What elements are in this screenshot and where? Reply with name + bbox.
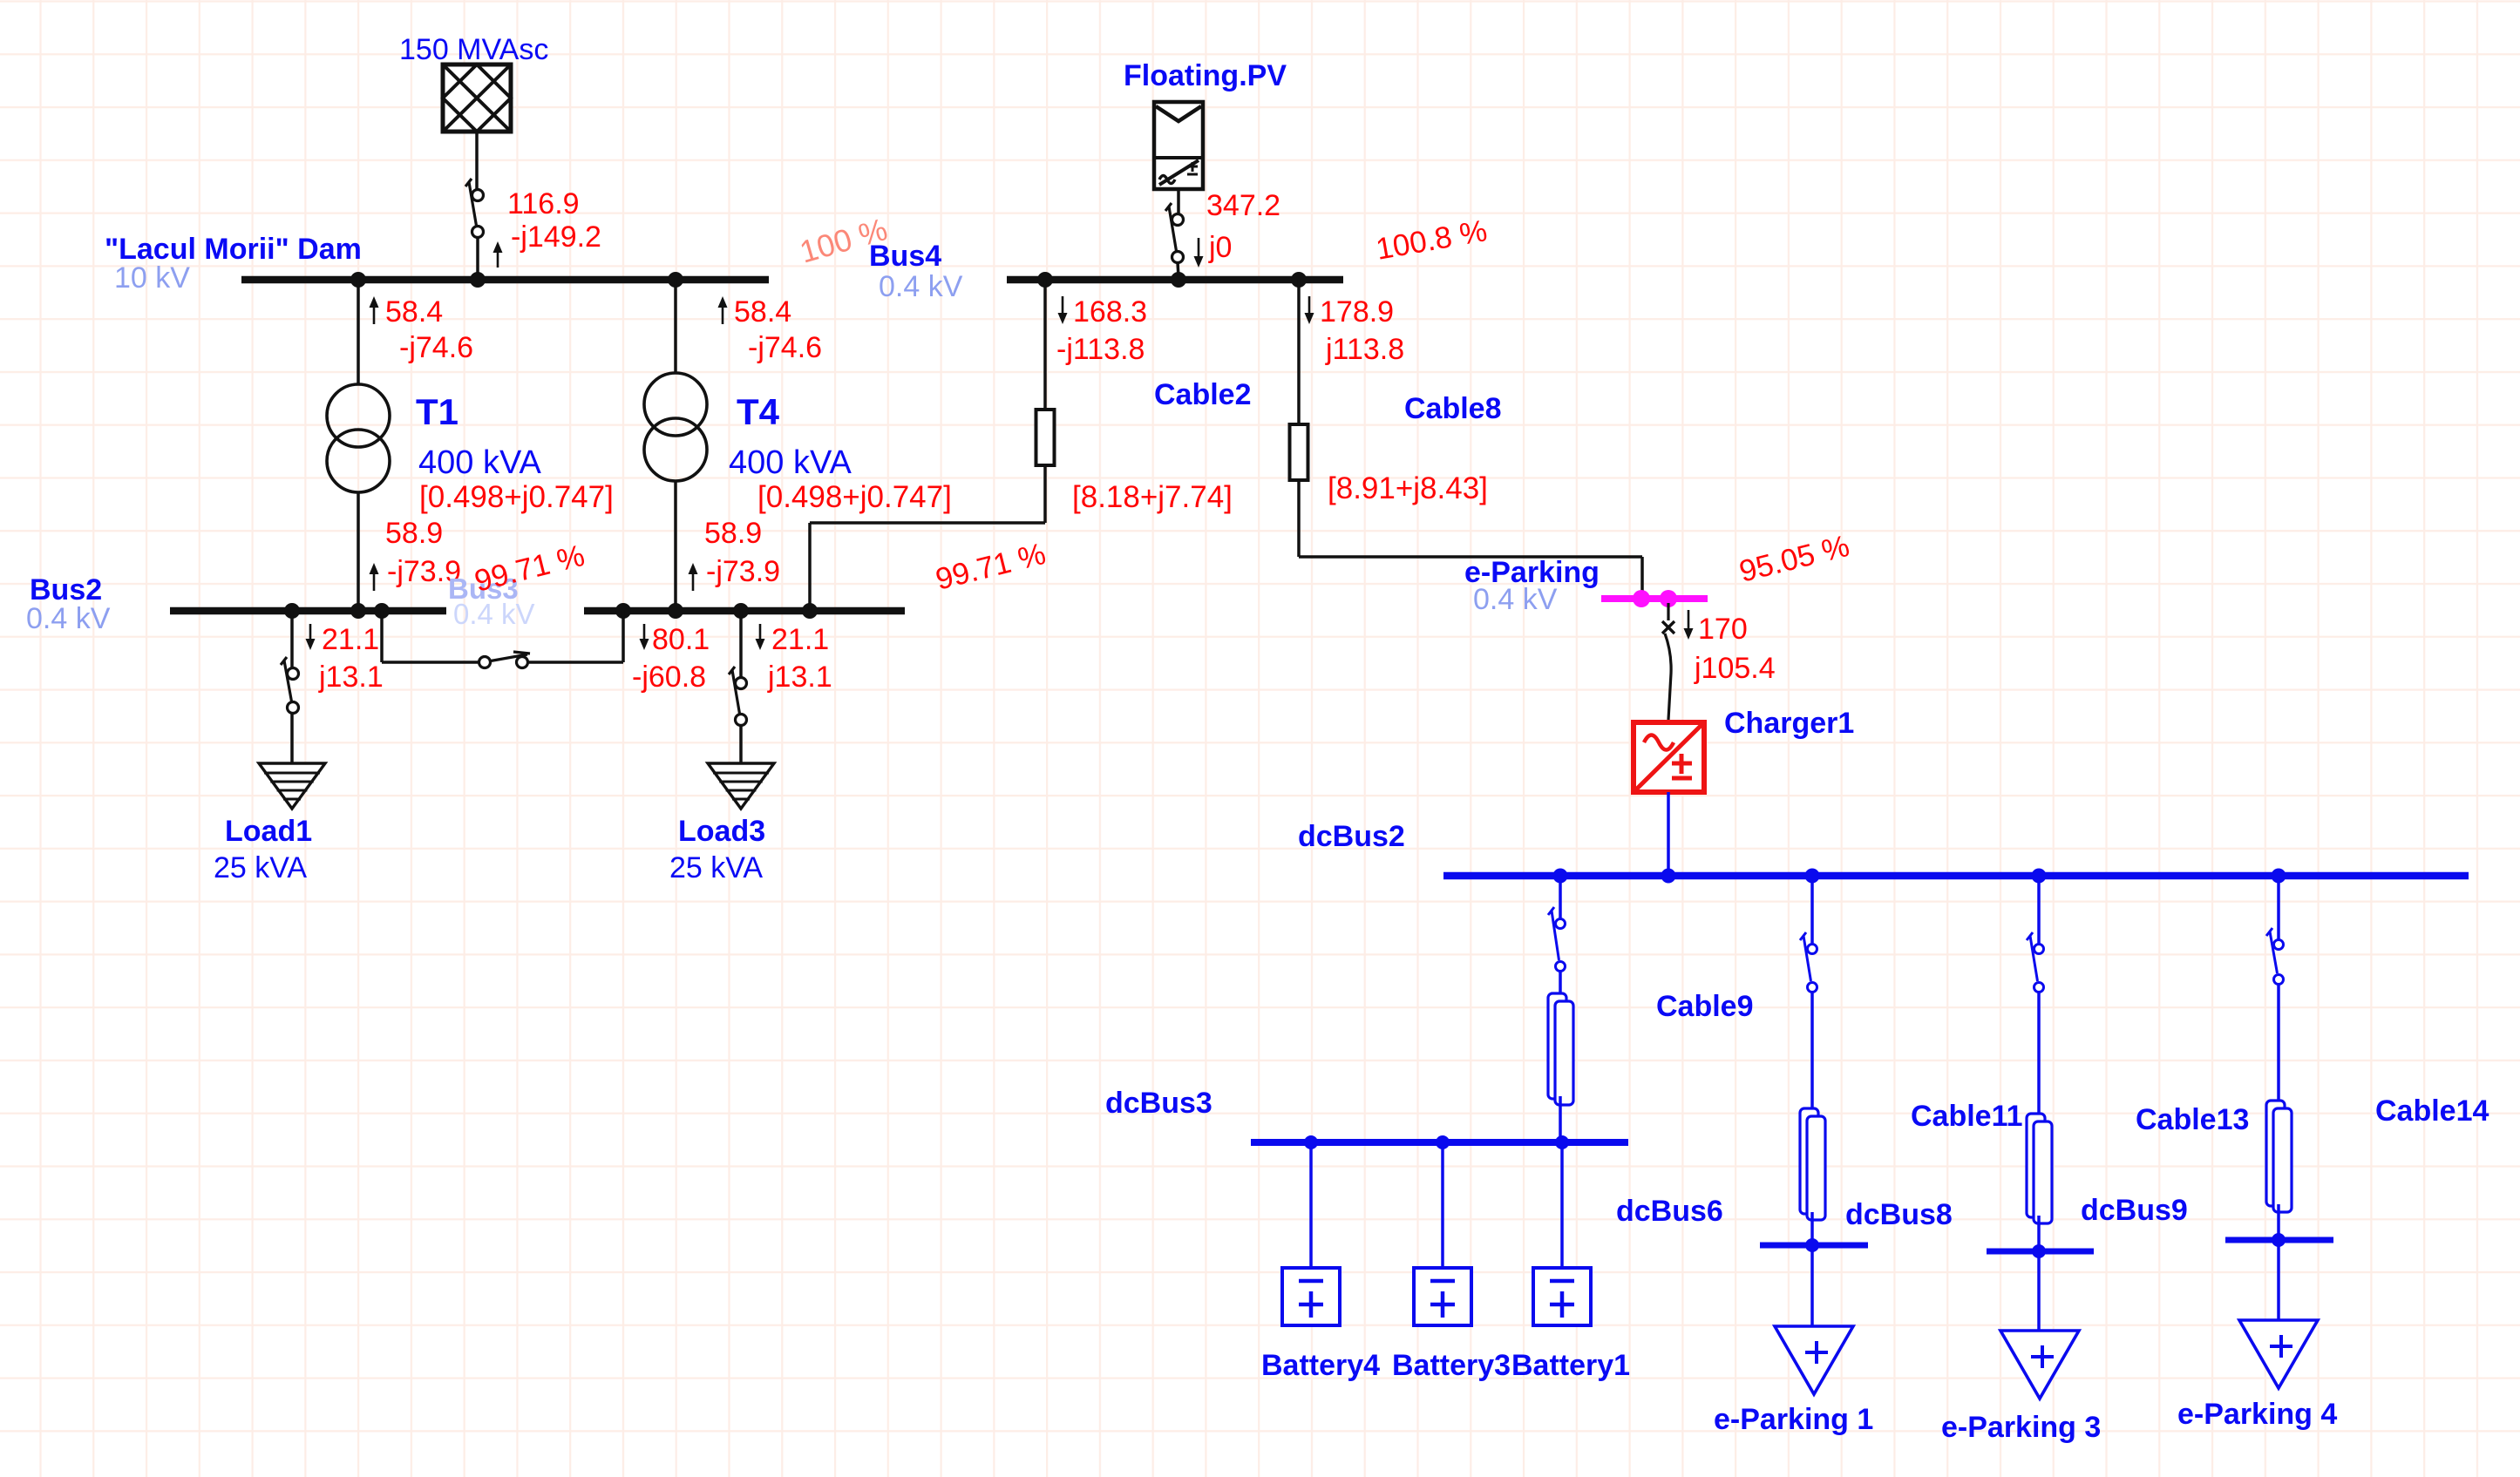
wire Bus3 to Load3 switch <box>739 611 743 678</box>
switch e-Parking to Charger1 (open, x-mark) <box>1662 603 1674 720</box>
cable Cable13 symbol <box>2027 1114 2052 1223</box>
node dcBus8 <box>1805 1238 1819 1252</box>
bus dcBus3 <box>1251 1139 1628 1146</box>
svg-text:Load1: Load1 <box>225 815 312 848</box>
svg-text:Cable8: Cable8 <box>1404 392 1502 425</box>
svg-text:Cable9: Cable9 <box>1656 990 1754 1023</box>
wire dcBus3 to Battery1 <box>1560 1142 1564 1268</box>
wire Bus2 tie down <box>382 611 479 662</box>
svg-text:[0.498+j0.747]: [0.498+j0.747] <box>419 480 614 514</box>
battery Battery4 <box>1282 1268 1340 1325</box>
node bus1-T4 <box>668 272 683 288</box>
svg-text:j0: j0 <box>1208 231 1232 264</box>
node dcBus e-Parking 4 <box>2272 1233 2286 1247</box>
svg-text:178.9: 178.9 <box>1320 295 1394 329</box>
svg-text:Bus4: Bus4 <box>869 240 941 273</box>
svg-text:170: 170 <box>1698 613 1748 646</box>
svg-text:T1: T1 <box>416 391 458 432</box>
load e-Parking 1 symbol <box>1775 1326 1853 1394</box>
flow label 58.4 with up arrow (T1 top) <box>370 295 444 329</box>
wire Cable14 to dc bus <box>2277 1204 2280 1240</box>
bus Bus4 0.4 kV <box>1007 276 1343 284</box>
node Bus4-Cable2 <box>1037 272 1053 288</box>
svg-text:21.1: 21.1 <box>322 623 379 656</box>
wire Cable13 to dcBus9 <box>2037 1216 2041 1251</box>
svg-text:400 kVA: 400 kVA <box>729 444 852 481</box>
switch Cable13 <box>2027 932 2044 993</box>
svg-text:Charger1: Charger1 <box>1724 707 1854 740</box>
switch Floating.PV <box>1165 203 1184 263</box>
flow label -j149.2 with up arrow <box>493 220 601 268</box>
svg-text:58.9: 58.9 <box>704 517 762 550</box>
svg-text:dcBus9: dcBus9 <box>2081 1194 2188 1227</box>
svg-text:58.4: 58.4 <box>734 295 791 329</box>
svg-text:dcBus6: dcBus6 <box>1616 1195 1723 1228</box>
wire switch to Load3 <box>739 725 743 763</box>
switch breaker external grid <box>465 179 484 238</box>
svg-text:150 MVAsc: 150 MVAsc <box>399 33 548 66</box>
switch Load1 <box>281 657 299 714</box>
bus Lacul Morii Dam 10 kV <box>241 276 769 284</box>
node bus1-T1 <box>350 272 366 288</box>
bus dcBus9 <box>1987 1249 2094 1255</box>
node Bus3-tie <box>615 603 631 619</box>
wire switch to bus Lacul Morii <box>476 237 479 277</box>
svg-text:-j60.8: -j60.8 <box>632 661 706 694</box>
transformer T4 <box>644 373 707 481</box>
flow label -j73.9 with up arrow (T1 bottom) <box>370 555 462 591</box>
svg-text:-j149.2: -j149.2 <box>511 220 601 254</box>
svg-text:-j73.9: -j73.9 <box>706 555 780 588</box>
svg-text:25 kVA: 25 kVA <box>214 851 307 884</box>
wire tie to Bus3 <box>527 611 623 662</box>
wire T4 to Bus3 <box>674 481 677 611</box>
svg-text:0.4 kV: 0.4 kV <box>26 602 111 635</box>
svg-text:dcBus3: dcBus3 <box>1105 1087 1212 1120</box>
wire dcBus9 to e-Parking 3 <box>2037 1251 2041 1331</box>
PV generator Floating.PV <box>1154 102 1203 189</box>
node dcBus3-Battery3 <box>1436 1135 1450 1149</box>
bus Bus2 0.4 kV <box>170 607 446 615</box>
flow label 21.1 with down arrow (Load3) <box>756 623 830 656</box>
wire switch to Load1 <box>290 713 294 763</box>
wire bus1 to T4 <box>674 280 677 373</box>
node Bus2-Load1 <box>284 603 300 619</box>
switch Cable11 <box>1800 932 1817 993</box>
svg-text:-j74.6: -j74.6 <box>399 331 473 364</box>
wire dcBus3 to Battery3 <box>1441 1142 1444 1268</box>
node dcBus3-Battery1 <box>1555 1135 1569 1149</box>
cable Cable14 symbol <box>2266 1101 2292 1212</box>
svg-text:Cable2: Cable2 <box>1154 378 1252 411</box>
cable Cable9 symbol <box>1548 993 1573 1105</box>
svg-text:58.9: 58.9 <box>385 517 443 550</box>
node Bus4-Cable8 <box>1291 272 1307 288</box>
bus dcBus (e-Parking 4) <box>2225 1237 2333 1243</box>
converter Charger1 <box>1634 722 1704 792</box>
flow label 21.1 with down arrow (Load1) <box>306 623 380 656</box>
cable Cable2 symbol <box>1036 410 1055 465</box>
svg-text:80.1: 80.1 <box>652 623 710 656</box>
cable Cable8 symbol <box>1290 424 1308 480</box>
svg-text:Battery3: Battery3 <box>1392 1349 1511 1382</box>
node Bus3-Load3 <box>733 603 749 619</box>
wire PV to switch <box>1177 189 1180 214</box>
svg-text:T4: T4 <box>737 391 780 432</box>
svg-text:dcBus2: dcBus2 <box>1298 820 1405 853</box>
wire switch to Cable11 <box>1810 993 1814 1108</box>
bus dcBus8 <box>1760 1243 1868 1249</box>
svg-text:Floating.PV: Floating.PV <box>1124 59 1287 92</box>
svg-text:Battery4: Battery4 <box>1261 1349 1380 1382</box>
svg-text:j13.1: j13.1 <box>318 661 384 694</box>
flow label -j73.9 with up arrow (T4 bottom) <box>689 555 781 591</box>
svg-text:116.9: 116.9 <box>507 187 580 220</box>
svg-text:-j113.8: -j113.8 <box>1056 333 1145 366</box>
wire switch to Bus4 <box>1178 262 1178 277</box>
flow label 170 with down arrow <box>1684 610 1748 646</box>
wire Bus2 to Load1 switch <box>290 611 294 668</box>
wire Cable2 to Bus3 <box>810 465 1045 611</box>
svg-text:0.4 kV: 0.4 kV <box>1473 583 1558 616</box>
svg-text:e-Parking 1: e-Parking 1 <box>1714 1403 1873 1436</box>
svg-text:e-Parking 4: e-Parking 4 <box>2177 1398 2337 1431</box>
node Bus2-T1 <box>350 603 366 619</box>
node dcBus2-Cable11 <box>1805 869 1820 884</box>
tie switch Bus2-Bus3 <box>479 652 531 668</box>
wire Cable11 to dcBus8 <box>1810 1212 1814 1245</box>
svg-text:Load3: Load3 <box>678 815 765 848</box>
svg-text:168.3: 168.3 <box>1073 295 1147 329</box>
svg-text:Cable14: Cable14 <box>2375 1094 2489 1128</box>
node dcBus2-Cable9 <box>1553 869 1568 884</box>
node dcBus9 <box>2032 1244 2046 1258</box>
wire dcBus8 to e-Parking 1 <box>1810 1245 1814 1326</box>
svg-text:Battery1: Battery1 <box>1511 1349 1630 1382</box>
wire dcBus2 to Cable9 switch <box>1559 876 1562 918</box>
wire T1 to Bus2 <box>357 492 360 611</box>
svg-text:25 kVA: 25 kVA <box>669 851 763 884</box>
node e-Parking Charger1 <box>1660 590 1677 607</box>
wire dcBus3 to Battery4 <box>1309 1142 1313 1268</box>
svg-text:58.4: 58.4 <box>385 295 443 329</box>
wire bus1 to T1 <box>357 280 360 385</box>
svg-text:0.4 kV: 0.4 kV <box>879 270 963 303</box>
wire dcBus2 to Cable13 switch <box>2037 876 2041 944</box>
svg-text:dcBus8: dcBus8 <box>1845 1198 1953 1231</box>
wire Charger1 to dcBus2 <box>1667 792 1670 872</box>
wire switch to Cable14 <box>2277 985 2280 1101</box>
battery Battery3 <box>1414 1268 1471 1325</box>
switch Cable14 <box>2266 928 2284 985</box>
wire Cable8 to e-Parking bus <box>1299 480 1642 595</box>
wire Bus4 to Cable8 <box>1297 280 1301 424</box>
node dcBus2-Charger1 <box>1661 869 1676 884</box>
node Bus4-PV <box>1171 272 1186 288</box>
node e-Parking Cable8 <box>1633 590 1650 607</box>
svg-text:j13.1: j13.1 <box>767 661 832 694</box>
svg-text:0.4 kV: 0.4 kV <box>453 598 535 630</box>
node Bus3-T4 <box>668 603 683 619</box>
cable Cable11 symbol <box>1800 1108 1825 1220</box>
node bus1-grid <box>470 272 486 288</box>
bus Bus3 0.4 kV <box>584 607 905 615</box>
svg-text:j113.8: j113.8 <box>1325 333 1404 366</box>
load Load3 symbol <box>708 763 774 809</box>
flow label 178.9 with down arrow <box>1305 295 1395 329</box>
flow label 168.3 with down arrow <box>1058 295 1148 329</box>
bus dcBus2 <box>1443 872 2469 880</box>
node Bus2-tie <box>374 603 390 619</box>
svg-text:347.2: 347.2 <box>1206 189 1280 222</box>
external grid source 150 MVAsc <box>443 64 511 132</box>
node dcBus2-Cable13 <box>2032 869 2047 884</box>
wire dcBus2 to Cable11 switch <box>1810 876 1814 944</box>
wire Bus4 to Cable2 <box>1043 280 1047 410</box>
transformer T1 <box>327 384 390 492</box>
svg-text:400 kVA: 400 kVA <box>418 444 541 481</box>
load e-Parking 4 symbol <box>2239 1320 2318 1388</box>
bus e-Parking 0.4 kV (magenta) <box>1601 595 1708 602</box>
wire dcBus2 to Cable14 switch <box>2277 876 2280 939</box>
wire Cable9 to dcBus3 <box>1559 1096 1562 1139</box>
node Bus3-Cable2 <box>802 603 818 619</box>
svg-text:-j74.6: -j74.6 <box>748 331 822 364</box>
svg-text:[8.91+j8.43]: [8.91+j8.43] <box>1328 471 1488 505</box>
load e-Parking 3 symbol <box>2000 1331 2079 1399</box>
svg-text:j105.4: j105.4 <box>1694 652 1776 685</box>
svg-text:[0.498+j0.747]: [0.498+j0.747] <box>757 480 952 514</box>
battery Battery1 <box>1533 1268 1591 1325</box>
flow label 80.1 with down arrow (T4 load) <box>640 623 710 656</box>
node dcBus2-Cable14 <box>2272 869 2286 884</box>
wire grid to switch <box>475 132 479 190</box>
svg-text:[8.18+j7.74]: [8.18+j7.74] <box>1072 480 1233 514</box>
switch Load3 <box>729 667 747 726</box>
flow label 58.4 with up arrow (T4 top) <box>718 295 792 329</box>
svg-text:e-Parking 3: e-Parking 3 <box>1941 1411 2101 1444</box>
switch Cable9 <box>1548 907 1566 972</box>
load Load1 symbol <box>259 763 325 809</box>
wire dc bus to e-Parking 4 <box>2277 1240 2280 1320</box>
svg-text:10 kV: 10 kV <box>114 261 190 295</box>
svg-text:Cable13: Cable13 <box>2136 1103 2249 1136</box>
wire switch to Cable13 <box>2037 993 2041 1114</box>
flow label j0 with down arrow <box>1194 231 1233 268</box>
svg-text:21.1: 21.1 <box>771 623 829 656</box>
svg-text:Cable11: Cable11 <box>1911 1100 2023 1133</box>
wire switch to Cable9 <box>1559 972 1562 993</box>
node dcBus3-Battery4 <box>1304 1135 1318 1149</box>
